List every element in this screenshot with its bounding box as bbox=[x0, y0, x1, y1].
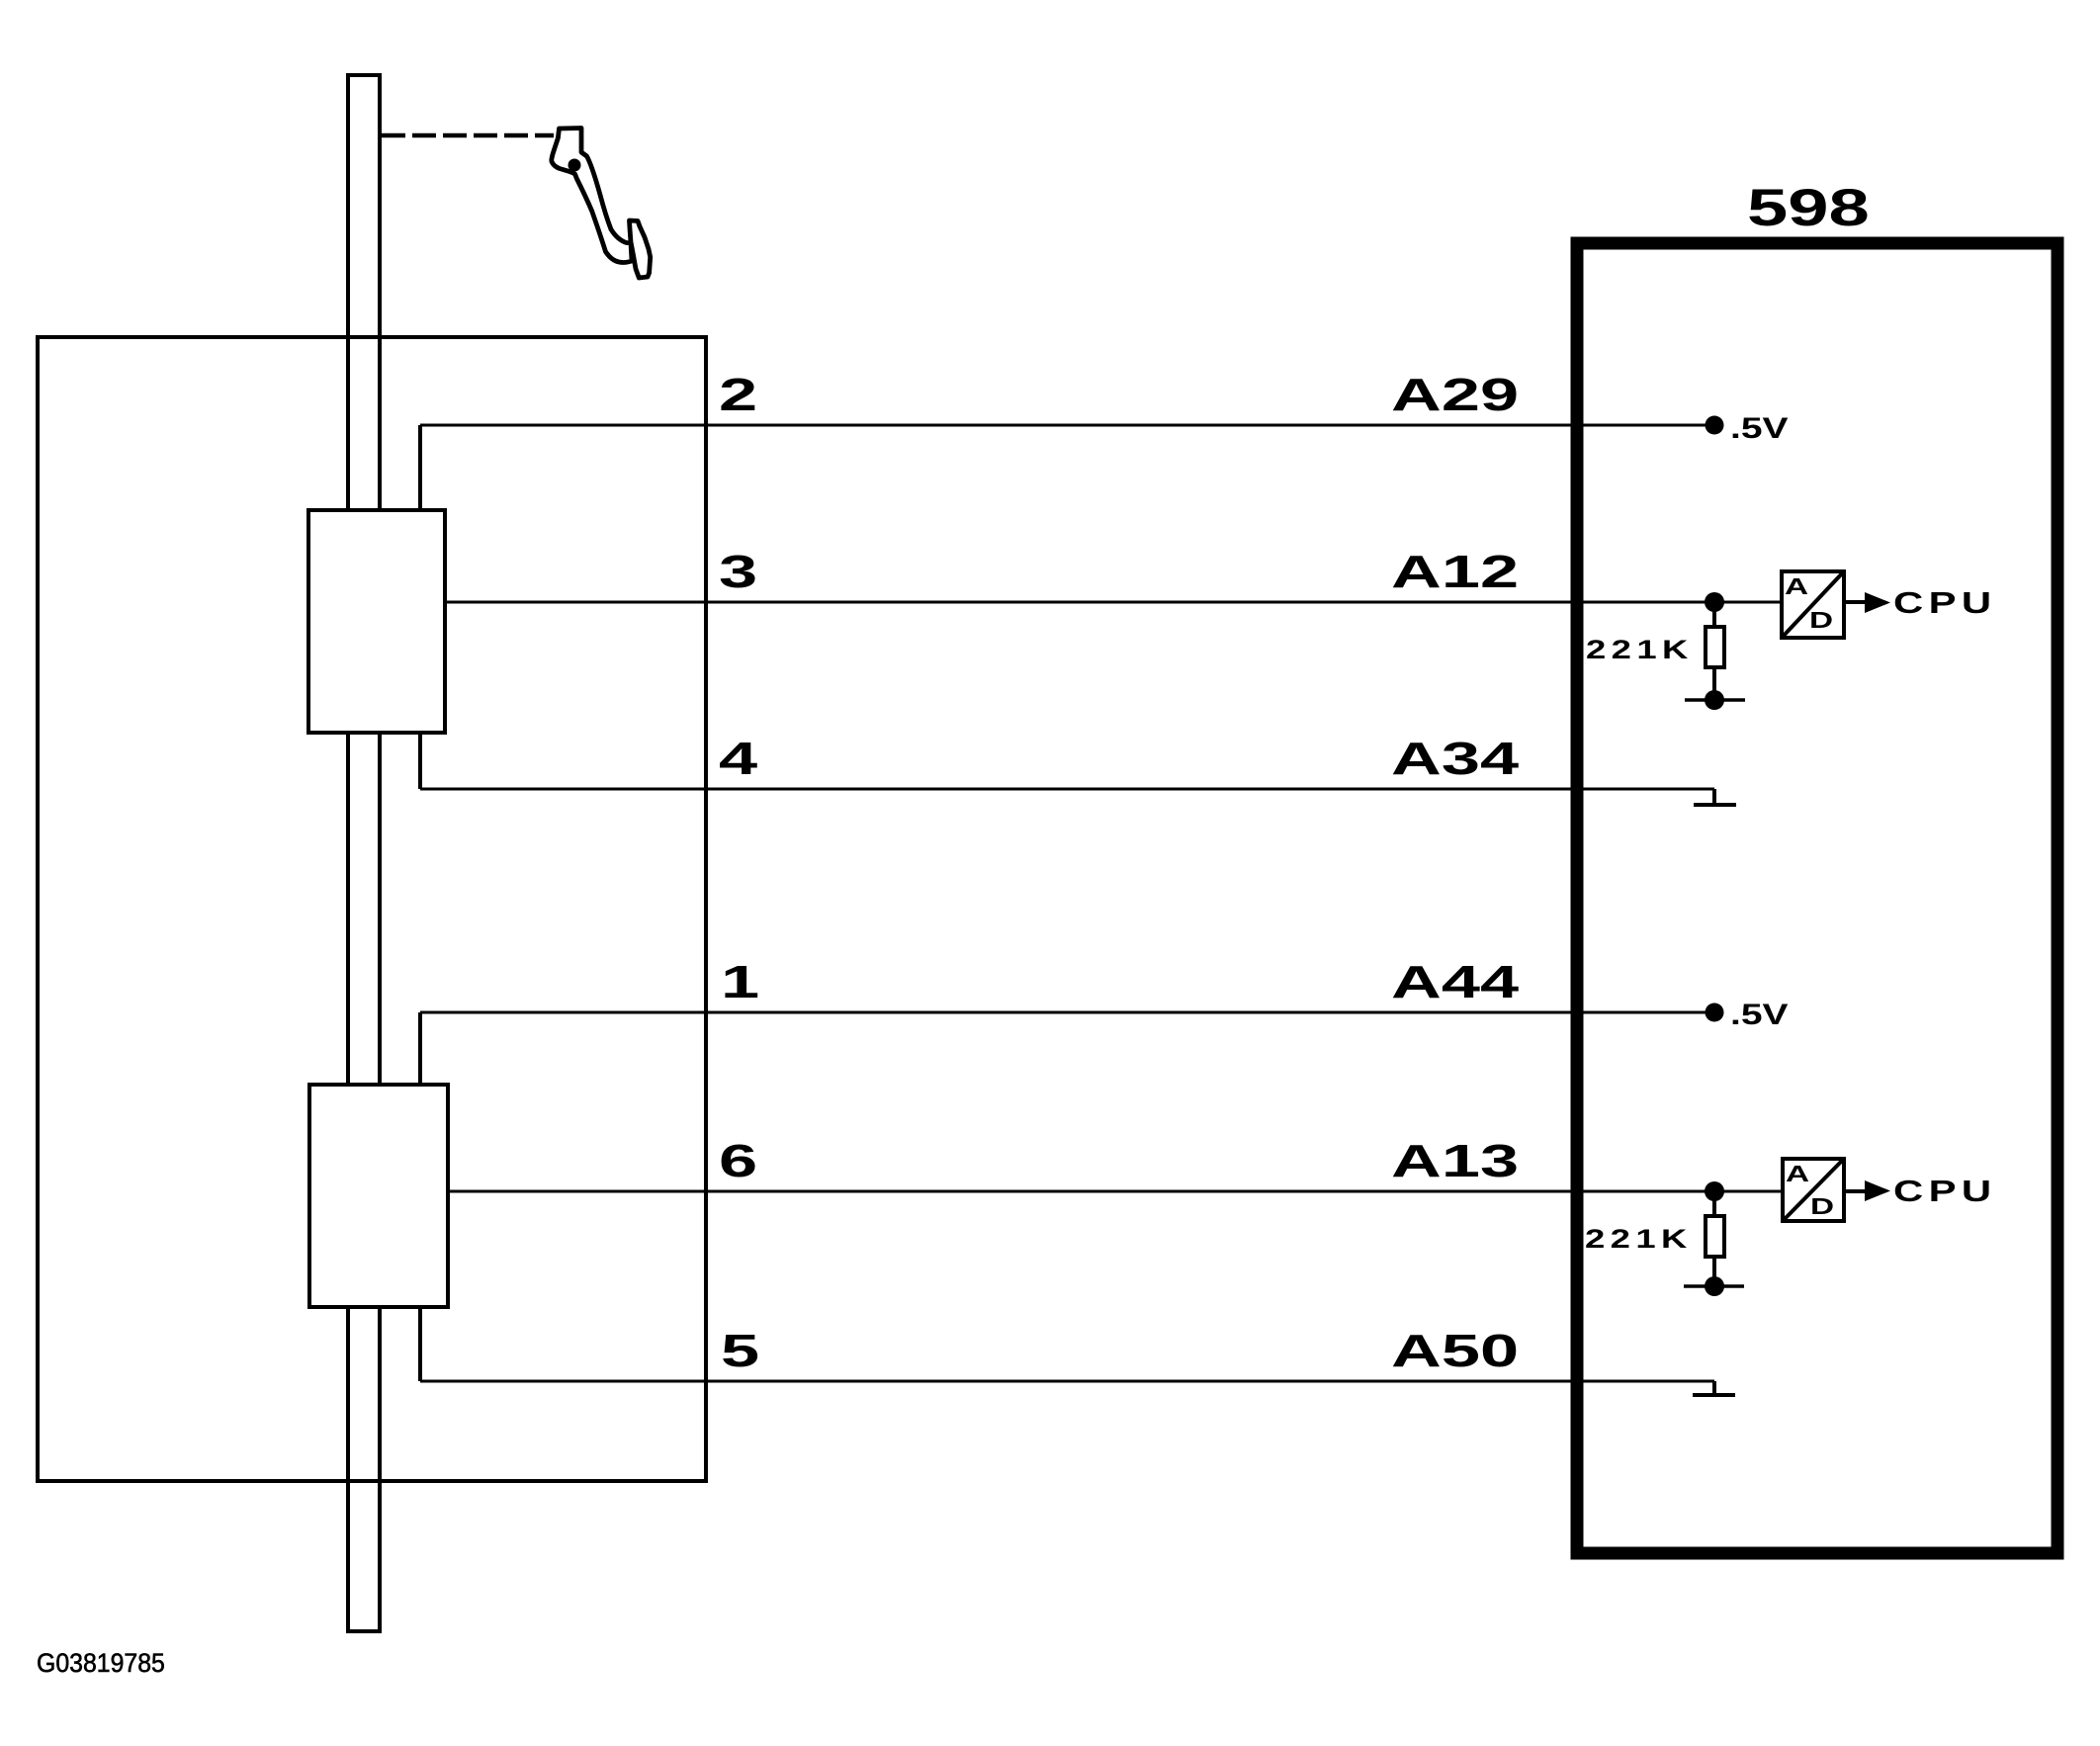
svg-text:A34: A34 bbox=[1391, 733, 1519, 784]
svg-text:A: A bbox=[1786, 1162, 1809, 1187]
svg-text:.5V: .5V bbox=[1730, 412, 1789, 445]
svg-text:A50: A50 bbox=[1391, 1325, 1519, 1376]
svg-text:3: 3 bbox=[719, 546, 757, 597]
svg-text:G03819785: G03819785 bbox=[37, 1649, 165, 1678]
svg-text:A12: A12 bbox=[1391, 546, 1519, 597]
svg-text:.5V: .5V bbox=[1730, 999, 1789, 1031]
svg-text:221K: 221K bbox=[1586, 635, 1694, 664]
svg-text:A29: A29 bbox=[1391, 369, 1519, 420]
svg-text:5: 5 bbox=[721, 1325, 759, 1376]
svg-text:2: 2 bbox=[719, 369, 757, 420]
svg-text:D: D bbox=[1809, 608, 1833, 634]
svg-text:A13: A13 bbox=[1391, 1135, 1519, 1186]
svg-text:598: 598 bbox=[1747, 178, 1870, 236]
svg-text:CPU: CPU bbox=[1893, 585, 1997, 620]
svg-text:D: D bbox=[1810, 1194, 1834, 1220]
svg-text:CPU: CPU bbox=[1893, 1174, 1997, 1208]
svg-text:6: 6 bbox=[719, 1135, 757, 1186]
svg-text:4: 4 bbox=[719, 733, 757, 784]
svg-text:221K: 221K bbox=[1585, 1224, 1693, 1254]
svg-text:A: A bbox=[1785, 574, 1808, 600]
svg-text:1: 1 bbox=[721, 956, 759, 1007]
svg-text:A44: A44 bbox=[1391, 956, 1519, 1007]
